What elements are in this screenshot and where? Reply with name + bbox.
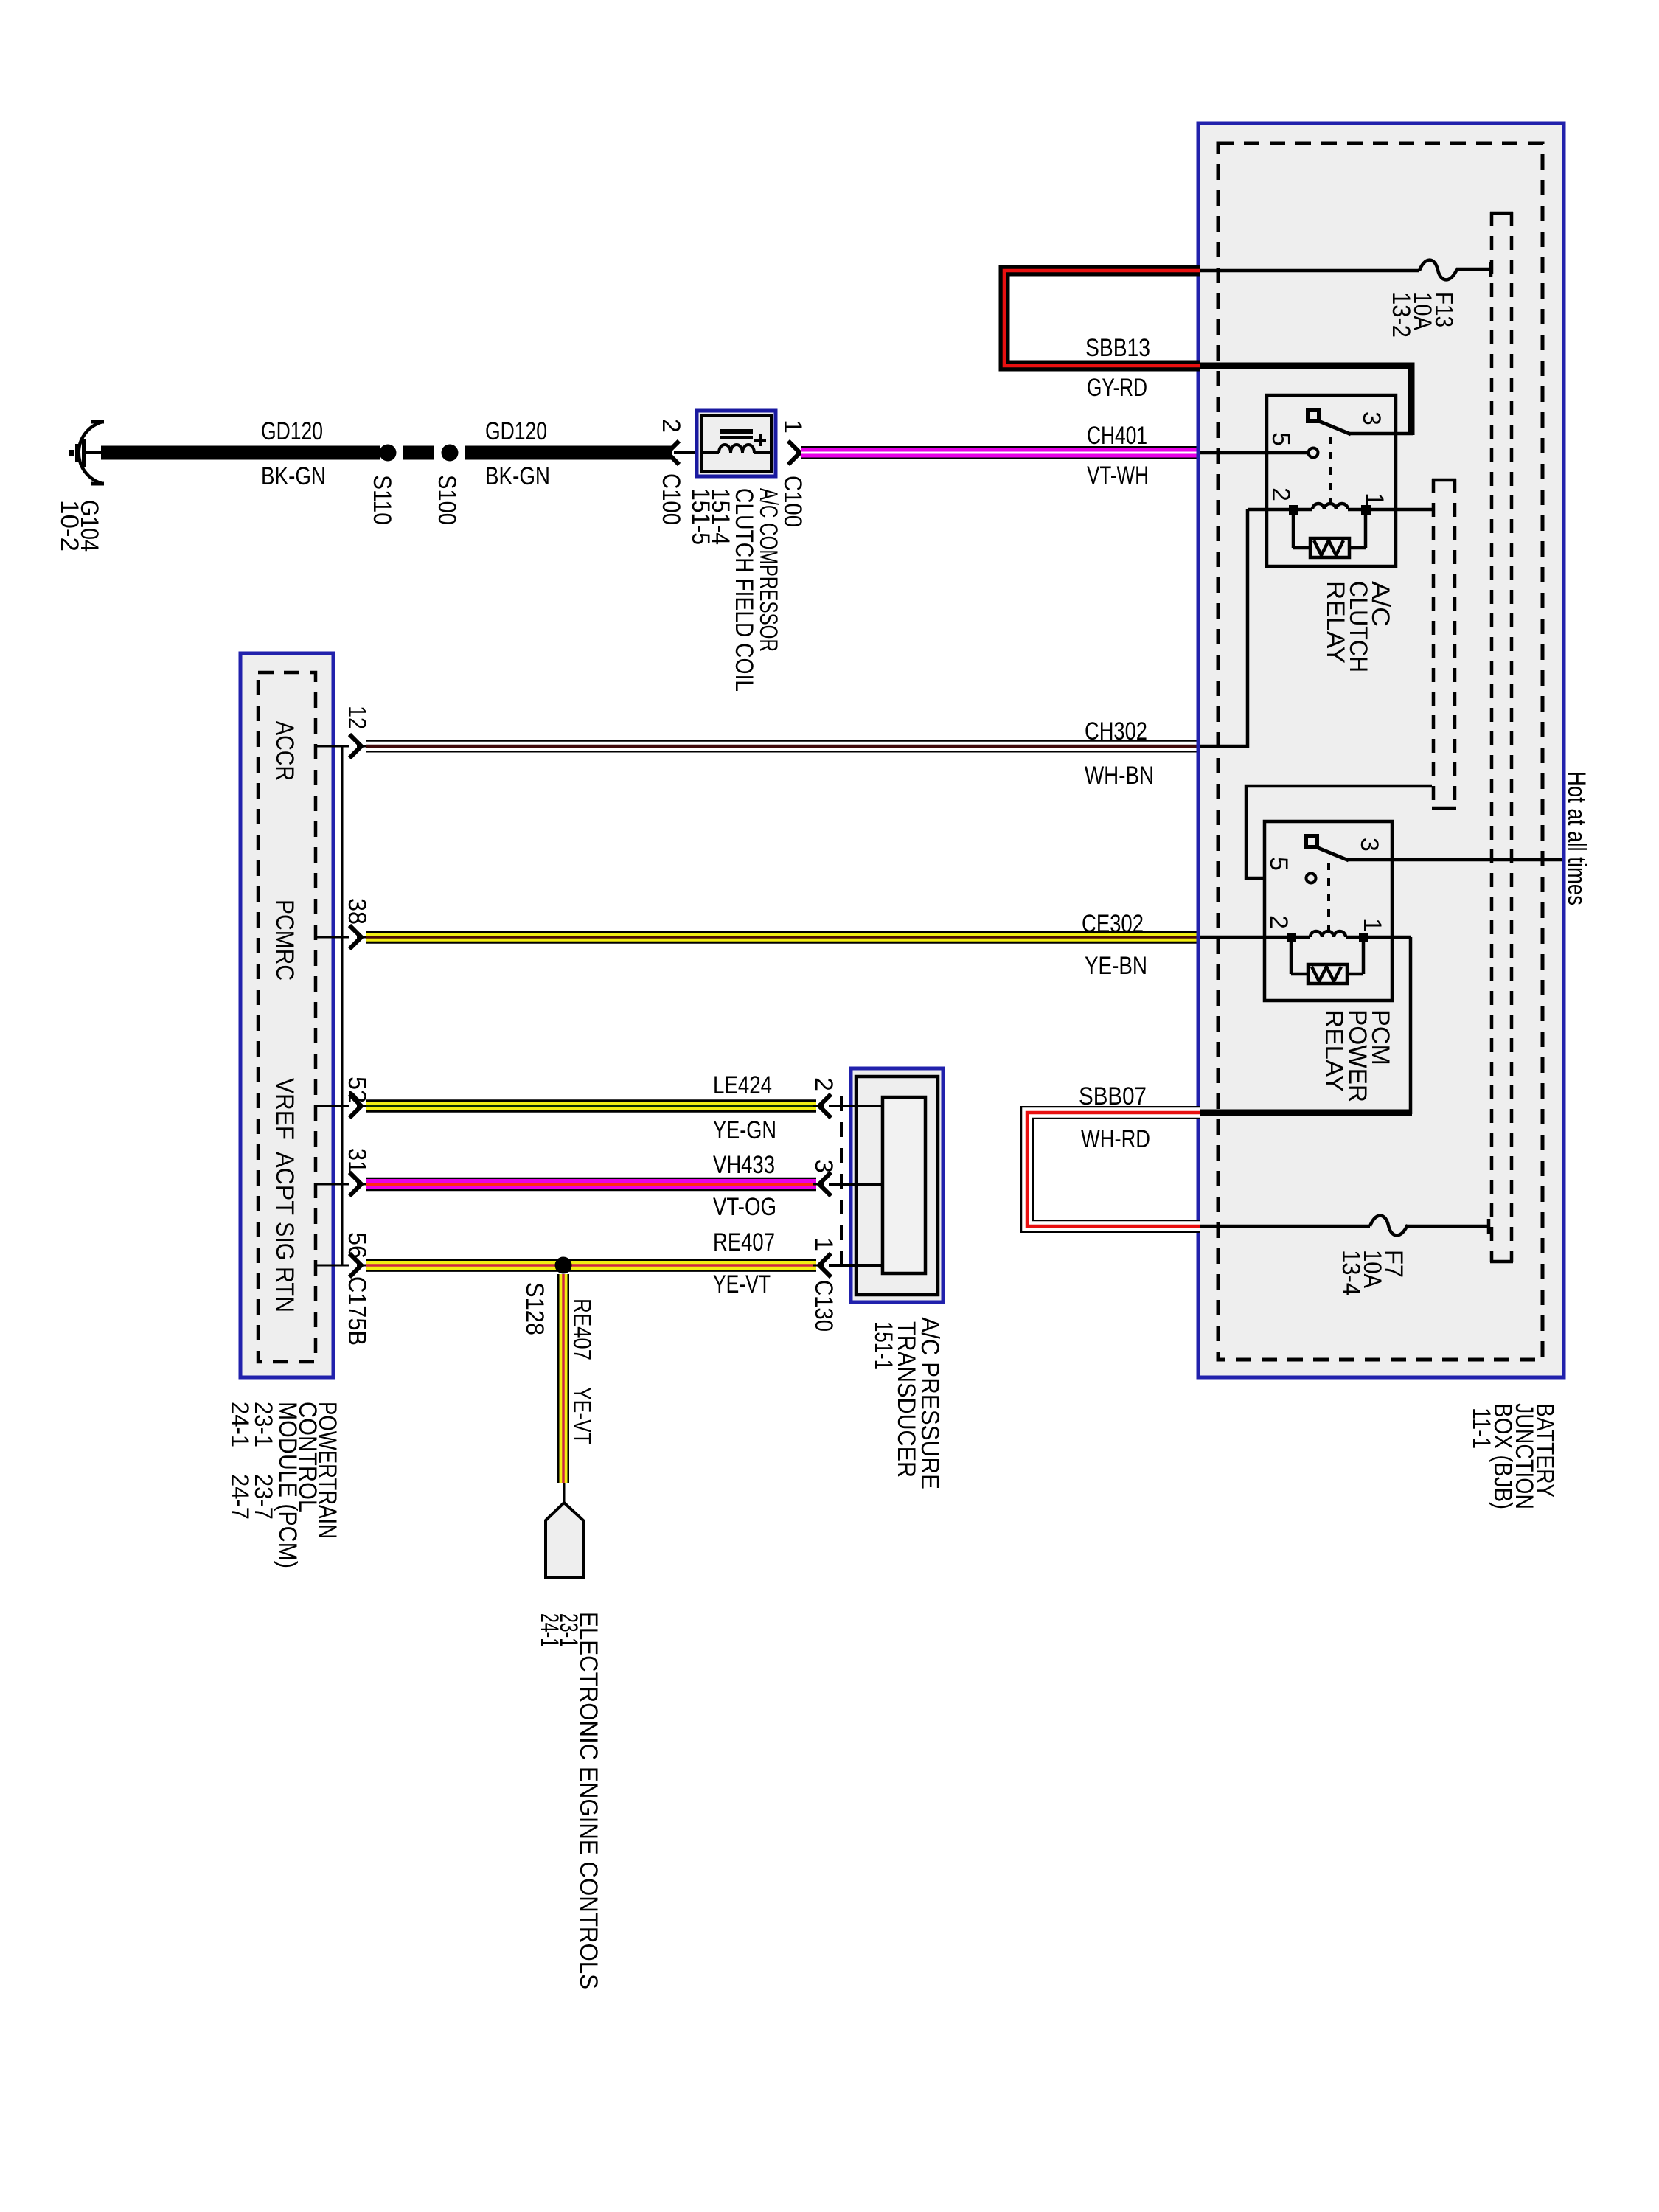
wire RE407 YE-VT horizontal — [366, 1259, 816, 1272]
svg-text:S110: S110 — [368, 475, 396, 525]
svg-text:LE424: LE424 — [713, 1071, 772, 1099]
PCM relay pin 5 contact circle — [1307, 874, 1316, 883]
wire RE407 YE-VT vertical — [557, 1274, 569, 1483]
wire GD120 segment between splices — [403, 446, 434, 460]
relay switch blade — [1317, 420, 1351, 434]
svg-text:RE407: RE407 — [713, 1228, 775, 1256]
svg-text:10-2: 10-2 — [55, 500, 83, 552]
svg-text:2: 2 — [810, 1077, 838, 1091]
svg-text:VT-OG: VT-OG — [713, 1193, 776, 1221]
PCM relay switch blade — [1315, 846, 1349, 860]
label F7 10A 13-4 — [1337, 1250, 1408, 1295]
svg-text:11-1: 11-1 — [1467, 1408, 1495, 1449]
relay pin 3 line — [1349, 432, 1413, 436]
pin 56 arrow — [349, 1253, 367, 1277]
label BATTERY JUNCTION BOX (BJB) 11-1 — [1467, 1403, 1559, 1509]
connector C100 pin 1 arrow — [788, 441, 806, 465]
pin 31 stub — [316, 1183, 349, 1186]
svg-text:56: 56 — [343, 1232, 371, 1259]
transducer pin 2 arrow — [813, 1094, 831, 1118]
wire GD120 BK-GN segment 2 — [465, 446, 672, 460]
PCM relay pin5 feed path from link channel — [1246, 786, 1432, 878]
svg-text:PCMRC: PCMRC — [271, 900, 299, 981]
svg-text:SBB07: SBB07 — [1079, 1082, 1147, 1110]
A/C compressor clutch field coil box — [697, 411, 776, 476]
splice S100 — [442, 445, 459, 462]
svg-text:38: 38 — [343, 898, 371, 925]
svg-text:1: 1 — [1358, 918, 1386, 932]
F13 feed line — [1200, 269, 1419, 273]
PCM relay coil pin1 drop to SBB07 — [1409, 937, 1413, 1114]
label A/C PRESSURE TRANSDUCER 151-1 — [869, 1317, 944, 1489]
wire stub into coil box — [674, 451, 700, 454]
label G104 10-2 — [55, 500, 103, 552]
svg-text:RELAY: RELAY — [1321, 581, 1349, 664]
svg-text:C130: C130 — [810, 1280, 838, 1332]
svg-text:3: 3 — [1357, 411, 1385, 425]
svg-text:2: 2 — [1265, 915, 1293, 929]
fuse F7 — [1370, 1216, 1408, 1236]
wire SBB13 GY-RD loop — [1004, 271, 1200, 366]
svg-text:VREF: VREF — [271, 1078, 299, 1140]
svg-text:5: 5 — [1265, 857, 1293, 871]
svg-text:52: 52 — [343, 1077, 371, 1103]
svg-text:13-4: 13-4 — [1337, 1250, 1365, 1295]
PCM inner dashed rect — [258, 672, 316, 1362]
BJB inner dashed border — [1218, 143, 1543, 1360]
wire CH302 WH-BN — [366, 740, 1198, 753]
svg-text:RELAY: RELAY — [1320, 1009, 1348, 1092]
svg-text:2: 2 — [657, 419, 685, 433]
pin 52 arrow — [349, 1094, 367, 1118]
transducer connector dashed line — [840, 1096, 843, 1265]
svg-text:13-2: 13-2 — [1387, 292, 1415, 338]
transducer pin 2 lead — [829, 1105, 883, 1107]
svg-text:3: 3 — [810, 1159, 838, 1173]
svg-text:C100: C100 — [657, 473, 685, 525]
svg-text:ACCR: ACCR — [271, 721, 299, 781]
svg-text:C175B: C175B — [343, 1276, 371, 1346]
svg-text:YE-VT: YE-VT — [568, 1387, 596, 1444]
pin 52 stub — [316, 1105, 349, 1107]
svg-text:ACPT: ACPT — [271, 1152, 299, 1215]
svg-text:Hot at all times: Hot at all times — [1562, 771, 1590, 905]
lead into off-page arrow — [563, 1483, 566, 1504]
transducer pin 1 lead — [829, 1264, 883, 1267]
svg-text:12: 12 — [343, 706, 371, 729]
SBB07 top continuation thick — [1200, 1110, 1412, 1116]
PCM power relay box — [1265, 821, 1392, 1001]
svg-text:151-5: 151-5 — [686, 488, 714, 545]
pin 12 arrow — [349, 734, 367, 758]
PCM relay switch common contact — [1306, 836, 1317, 847]
PCM internal vertical bus line — [341, 746, 344, 1265]
connector C100 pin 2 arrow — [661, 441, 679, 465]
wire LE424 YE-GN — [366, 1099, 816, 1113]
pin 5 feed line from CH401 — [1200, 451, 1307, 455]
label POWERTRAIN CONTROL MODULE (PCM) — [226, 1402, 341, 1568]
PCM relay actuator dashed link — [1327, 863, 1330, 931]
svg-text:VH433: VH433 — [713, 1151, 775, 1179]
pin 38 stub — [316, 936, 349, 939]
svg-text:151-1: 151-1 — [869, 1321, 897, 1370]
svg-text:1: 1 — [1360, 493, 1388, 507]
svg-text:2: 2 — [1267, 487, 1295, 501]
splice S128 — [555, 1257, 572, 1274]
svg-text:BK-GN: BK-GN — [485, 462, 550, 490]
relay switch common contact — [1308, 410, 1319, 421]
pin 31 arrow — [349, 1172, 367, 1196]
A/C clutch relay box — [1267, 395, 1396, 566]
svg-text:S100: S100 — [433, 475, 461, 525]
wire CE302 YE-BN — [366, 931, 1198, 944]
label PCM POWER RELAY — [1320, 1009, 1394, 1102]
svg-text:24-1: 24-1 — [226, 1402, 254, 1447]
pin 56 stub — [316, 1265, 349, 1267]
relay link dashed channel — [1432, 479, 1456, 809]
svg-text:WH-RD: WH-RD — [1081, 1125, 1150, 1153]
F7 feed line — [1200, 1225, 1370, 1228]
transducer pin 3 lead — [829, 1183, 883, 1186]
svg-text:YE-VT: YE-VT — [713, 1270, 771, 1298]
PCM relay coil — [1200, 931, 1411, 942]
label A/C CLUTCH RELAY — [1321, 581, 1394, 672]
svg-text:YE-BN: YE-BN — [1085, 952, 1147, 980]
svg-text:CH401: CH401 — [1087, 422, 1147, 450]
svg-text:VT-WH: VT-WH — [1087, 462, 1149, 490]
relay actuator dashed link — [1329, 437, 1332, 504]
svg-text:31: 31 — [343, 1148, 371, 1173]
wire SBB07 WH-RD loop — [1027, 1113, 1200, 1226]
relay coil — [1248, 504, 1432, 515]
wire VH433 VT-OG — [366, 1178, 816, 1192]
relay resistor — [1293, 515, 1366, 557]
svg-text:S128: S128 — [521, 1282, 549, 1335]
svg-text:RE407: RE407 — [568, 1298, 596, 1360]
svg-text:5: 5 — [1267, 432, 1295, 446]
pin 12 stub — [316, 745, 349, 748]
SBB13 continuation thick — [1200, 366, 1411, 435]
battery junction box (BJB) — [1198, 123, 1564, 1377]
svg-text:CH302: CH302 — [1085, 717, 1147, 745]
svg-text:24-1: 24-1 — [535, 1613, 563, 1647]
label F13 10A 13-2 — [1387, 292, 1458, 338]
A/C pressure transducer box — [851, 1068, 943, 1302]
svg-text:YE-GN: YE-GN — [713, 1116, 776, 1144]
transducer pin 1 arrow — [813, 1253, 831, 1277]
wire GD120 BK-GN segment 1 — [101, 446, 380, 460]
svg-text:GD120: GD120 — [485, 417, 547, 445]
fuse F13 — [1419, 260, 1457, 280]
relay pin 5 contact circle — [1309, 448, 1318, 458]
PCM relay resistor — [1291, 942, 1363, 984]
svg-text:CE302: CE302 — [1082, 910, 1144, 938]
hot bus dashed channel (F13-F7) — [1490, 212, 1513, 1262]
svg-text:24-7: 24-7 — [226, 1474, 254, 1520]
svg-text:BK-GN: BK-GN — [261, 462, 326, 490]
PCM connector box — [240, 653, 333, 1377]
splice S110 — [380, 445, 397, 462]
svg-text:GD120: GD120 — [261, 417, 323, 445]
PCM relay pin 3 line (hot at all times) — [1347, 858, 1562, 862]
svg-text:SBB13: SBB13 — [1085, 334, 1150, 362]
pin 38 arrow — [349, 925, 367, 949]
svg-text:ELECTRONIC ENGINE CONTROLS: ELECTRONIC ENGINE CONTROLS — [574, 1612, 602, 1989]
svg-text:1: 1 — [810, 1237, 838, 1251]
label A/C COMPRESSOR CLUTCH FIELD COIL 151-4 151-5 — [686, 488, 782, 692]
ground G104 — [69, 422, 104, 484]
svg-text:SIG RTN: SIG RTN — [271, 1222, 299, 1312]
svg-text:1: 1 — [779, 420, 807, 434]
svg-text:WH-BN: WH-BN — [1085, 762, 1154, 790]
wire CH401 VT-WH — [801, 446, 1198, 459]
off-page arrow to electronic engine controls — [546, 1503, 583, 1577]
transducer pin 3 arrow — [813, 1172, 831, 1196]
relay pin 2 drop to CH302 — [1200, 509, 1248, 746]
svg-text:GY-RD: GY-RD — [1087, 374, 1147, 402]
svg-text:3: 3 — [1355, 838, 1383, 852]
